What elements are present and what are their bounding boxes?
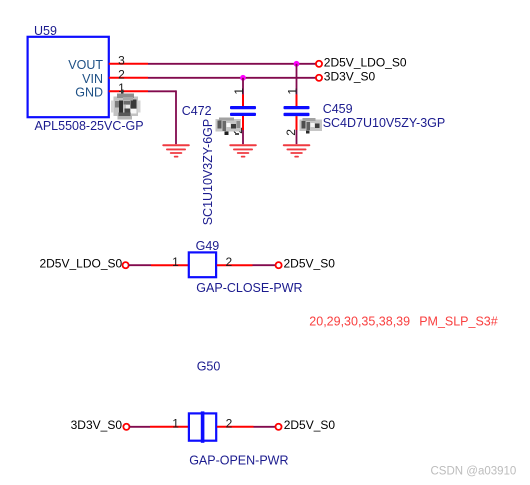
svg-text:2D5V_S0: 2D5V_S0 — [284, 257, 336, 271]
svg-text:2D5V_S0: 2D5V_S0 — [284, 418, 336, 432]
wire G50 left — [129, 426, 150, 428]
ground symbol under U59 GND — [162, 144, 190, 157]
svg-text:VOUT: VOUT — [68, 58, 103, 72]
wire GND vertical segment — [175, 90, 177, 144]
wire G49 left — [129, 264, 151, 266]
svg-text:1: 1 — [172, 416, 179, 430]
U59 pin 1 stub — [109, 90, 148, 92]
wire net 2D5V_LDO_S0 horizontal — [148, 63, 316, 65]
svg-text:VIN: VIN — [82, 72, 103, 86]
ground symbol under C459 — [283, 144, 311, 157]
svg-text:3D3V_S0: 3D3V_S0 — [324, 69, 376, 83]
svg-text:SC4D7U10V5ZY-3GP: SC4D7U10V5ZY-3GP — [323, 116, 446, 130]
port 3D3V_S0 (top) — [316, 75, 322, 81]
junction dot on 3D3V_S0 at C472 — [240, 75, 246, 81]
wire G50 right — [254, 426, 276, 428]
capacitor C459 plates — [284, 106, 310, 116]
G50 pin 1 stub — [150, 426, 188, 428]
wire C472 bottom vertical — [242, 130, 244, 144]
svg-text:1: 1 — [172, 255, 179, 269]
svg-text:2D5V_LDO_S0: 2D5V_LDO_S0 — [324, 55, 407, 69]
svg-text:2: 2 — [118, 68, 125, 82]
capacitor C472 plates — [230, 106, 256, 116]
port 3D3V_S0 (G50 left) — [123, 424, 129, 430]
capacitor C1 pin 1 stub (C472) — [242, 95, 244, 107]
G49 pin 1 stub — [151, 264, 188, 266]
svg-text:2: 2 — [225, 255, 232, 269]
capacitor C459 pin 2 stub — [296, 116, 298, 130]
U59 pin 3 stub — [109, 63, 148, 65]
port 2D5V_S0 (G50 right) — [275, 424, 281, 430]
svg-text:C472: C472 — [182, 104, 212, 118]
svg-text:3D3V_S0: 3D3V_S0 — [71, 418, 123, 432]
G50 pin 2 stub — [217, 426, 254, 428]
svg-text:1: 1 — [286, 88, 300, 95]
censored GP logo blob near U59 — [111, 90, 141, 120]
wire net 3D3V_S0 horizontal — [148, 77, 316, 79]
port 2D5V_S0 (G49 right) — [276, 262, 282, 268]
svg-text:GAP-CLOSE-PWR: GAP-CLOSE-PWR — [196, 281, 302, 295]
port 2D5V_LDO_S0 (G49 left) — [123, 262, 129, 268]
censored GP logo blob near C472 — [216, 118, 242, 136]
svg-text:1: 1 — [232, 88, 246, 95]
wire C472 top vertical — [242, 78, 244, 95]
gap component G49 body — [189, 252, 216, 277]
G49 pin 2 stub — [217, 264, 253, 266]
svg-text:20,29,30,35,38,39: 20,29,30,35,38,39 — [309, 314, 410, 328]
wire C459 bottom vertical — [296, 130, 298, 144]
svg-text:G50: G50 — [197, 360, 221, 374]
junction dot on 2D5V_LDO_S0 at C459 — [294, 61, 300, 67]
censored GP logo blob near C459 — [300, 118, 323, 134]
svg-text:2: 2 — [226, 416, 233, 430]
svg-text:3: 3 — [118, 54, 125, 68]
capacitor C459 pin 1 stub — [296, 95, 298, 107]
svg-text:CSDN @a03910: CSDN @a03910 — [431, 466, 517, 478]
wire C459 top vertical — [296, 64, 298, 95]
op-amp U1 : IC U59 body — [28, 37, 109, 117]
ground symbol under C472 — [229, 144, 256, 157]
svg-text:2D5V_LDO_S0: 2D5V_LDO_S0 — [39, 257, 122, 271]
capacitor C472 pin 2 stub — [242, 116, 244, 130]
svg-text:GAP-OPEN-PWR: GAP-OPEN-PWR — [189, 454, 288, 468]
svg-text:GND: GND — [75, 86, 103, 100]
G50 center bar — [201, 411, 205, 442]
svg-text:C459: C459 — [323, 102, 353, 116]
svg-text:APL5508-25VC-GP: APL5508-25VC-GP — [35, 119, 144, 133]
svg-text:PM_SLP_S3#: PM_SLP_S3# — [419, 314, 498, 328]
U59 pin 2 stub — [109, 77, 148, 79]
gap component G50 body — [189, 413, 216, 440]
svg-text:G49: G49 — [196, 239, 220, 253]
wire GND horizontal segment — [148, 90, 176, 92]
wire G49 right — [253, 264, 276, 266]
svg-text:SC1U10V3ZY-6GP: SC1U10V3ZY-6GP — [201, 119, 215, 226]
svg-text:U59: U59 — [34, 24, 57, 38]
port 2D5V_LDO_S0 (top) — [316, 61, 322, 67]
